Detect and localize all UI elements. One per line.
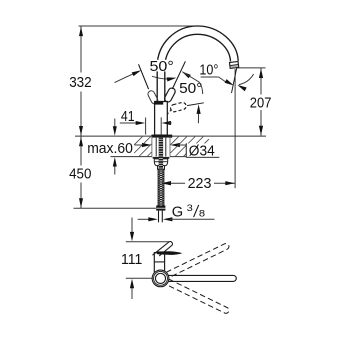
svg-text:50°: 50° [179, 81, 202, 97]
svg-text:G: G [172, 205, 183, 221]
svg-text:223: 223 [188, 176, 212, 192]
svg-text:3: 3 [187, 203, 193, 214]
svg-text:10°: 10° [199, 63, 218, 79]
svg-text:41: 41 [121, 109, 135, 125]
svg-text:Ø34: Ø34 [189, 143, 215, 159]
svg-text:450: 450 [69, 167, 91, 183]
svg-text:207: 207 [250, 95, 272, 111]
svg-text:50°: 50° [150, 59, 174, 75]
svg-text:111: 111 [121, 252, 142, 268]
svg-text:8: 8 [199, 209, 205, 220]
svg-text:max.60: max.60 [87, 141, 133, 157]
svg-text:332: 332 [69, 75, 92, 91]
